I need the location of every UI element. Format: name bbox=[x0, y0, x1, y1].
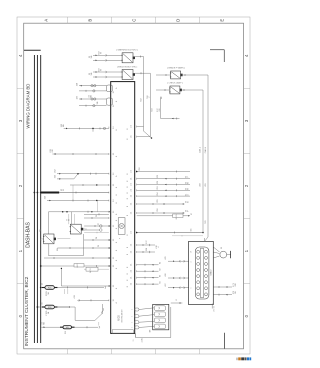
BB bottom labels bbox=[141, 338, 144, 343]
OBD right side wire 1 bbox=[213, 286, 232, 288]
BB block outer bbox=[153, 304, 169, 329]
labels rows 3-4 bbox=[77, 95, 79, 99]
OBD feed wire 1 bbox=[168, 260, 189, 262]
drop x97 bbox=[96, 201, 98, 212]
ground wire bbox=[227, 254, 231, 256]
light wire y235.8 bbox=[172, 235, 203, 237]
BB top arrow connector bbox=[171, 299, 183, 304]
W5 labels bbox=[42, 322, 46, 325]
wire y185 bbox=[70, 184, 109, 186]
border inner frame bbox=[24, 23, 244, 349]
connector bubble pair lamp B bbox=[84, 225, 102, 232]
ECU box label MID2 bbox=[118, 309, 124, 323]
bus terminator bar bbox=[24, 49, 41, 51]
OBD right labels bbox=[233, 282, 237, 286]
wire y214 bbox=[84, 213, 109, 215]
lamp B label bbox=[84, 227, 88, 230]
power bus line 3 bbox=[40, 55, 42, 343]
lamp A body bbox=[43, 234, 56, 244]
oval component W5 bbox=[60, 326, 75, 330]
rows labels bbox=[157, 198, 159, 202]
label above strong wire bbox=[191, 229, 193, 232]
fuse F1 label bbox=[46, 291, 50, 296]
fuse F1 body bbox=[42, 286, 58, 290]
fuse F2 connector bumps bbox=[102, 308, 104, 313]
left edge entry arrows bbox=[109, 211, 110, 287]
boxed label 2 bbox=[84, 267, 109, 272]
cluster labels bbox=[146, 239, 148, 243]
ECU internal gauge symbol bbox=[118, 218, 125, 239]
ECU bottom-right rounded pin stubs bbox=[132, 308, 139, 329]
BB right side rail bbox=[136, 307, 171, 338]
fuse F2 second branch bbox=[54, 306, 69, 308]
ECU right edge pin numbers bbox=[131, 125, 133, 286]
riser top labels bbox=[147, 94, 151, 98]
lamp A link wire bbox=[49, 239, 71, 256]
wire W202 to housing H1 bbox=[79, 90, 107, 92]
wire ECU to riser x204 bbox=[136, 232, 203, 234]
wire y154 label bbox=[50, 149, 54, 153]
wire to ECU y154 bbox=[52, 153, 109, 155]
wire riser B bbox=[137, 73, 151, 136]
extra junction dots left mesh bbox=[91, 184, 97, 212]
power bus line 2 bbox=[36, 55, 38, 343]
lamp C wire labels bbox=[89, 55, 93, 58]
OBD shell center bar bbox=[201, 248, 204, 298]
splice circle bbox=[220, 251, 227, 258]
border outer frame bbox=[17, 17, 250, 354]
power bus line 1 bbox=[33, 55, 35, 343]
wire rows y197-213 bbox=[137, 203, 185, 214]
lamp E wires bbox=[156, 74, 208, 76]
wire pair merge y174/179 bbox=[57, 173, 109, 180]
quartet wires to arrows bbox=[137, 264, 159, 285]
quartet labels bbox=[160, 261, 162, 264]
lamp D right wire to riser bbox=[135, 72, 150, 74]
BB block wires from ECU bbox=[139, 308, 154, 328]
riser labels bbox=[199, 146, 202, 153]
L wire into box bottom bbox=[61, 268, 109, 286]
more scatter labels bbox=[205, 219, 207, 223]
OBD bottom stub bbox=[212, 304, 215, 312]
ECU bottom stub pin bbox=[133, 333, 136, 341]
wire to ECU y128 bbox=[64, 127, 109, 131]
lamp D left wires bbox=[93, 71, 122, 78]
ground bar bbox=[230, 251, 232, 258]
fuse F2 label bbox=[46, 311, 50, 316]
ECU inner bottom rect bbox=[112, 330, 133, 334]
drop into lamp B bbox=[69, 212, 75, 224]
cluster mesh wire y240 bbox=[84, 239, 109, 241]
ECU right edge pin ticks bbox=[136, 126, 138, 285]
wire y128 label bbox=[61, 123, 65, 127]
fuse F1 wire bbox=[40, 287, 106, 289]
wire field labels bbox=[139, 166, 141, 170]
boxed label wire y215.8 bbox=[137, 214, 190, 220]
wire riser C with connector bbox=[161, 97, 180, 120]
OBD top edge pins bbox=[204, 238, 206, 241]
top right bracket bbox=[210, 50, 224, 62]
long wire riser x204 bbox=[205, 75, 209, 241]
riser C label bbox=[157, 107, 161, 111]
OBD feed wire 3 bbox=[168, 287, 189, 289]
extra pin number columns inside ECU right bbox=[127, 128, 129, 288]
BB block cells bbox=[154, 306, 165, 329]
labels rows 1-2 bbox=[77, 82, 79, 86]
extra cluster labels bbox=[57, 247, 59, 251]
cluster mesh wire y218 bbox=[84, 217, 109, 219]
fuse F2 body bbox=[42, 305, 58, 309]
wire y300 label bbox=[74, 295, 76, 299]
lamp A label bbox=[41, 237, 45, 240]
cluster top wire y211.8 bbox=[49, 211, 109, 213]
lamp D body bbox=[122, 70, 135, 80]
lamp F wires bbox=[156, 89, 203, 91]
zone column ticks top bbox=[17, 17, 250, 354]
wire W203 to housing H2 bbox=[79, 98, 107, 100]
splice label bbox=[221, 246, 223, 249]
lamp B body bbox=[70, 224, 83, 234]
OBD feed wire 2 bbox=[168, 277, 189, 279]
cluster mesh labels bbox=[96, 214, 98, 217]
feed bar label bbox=[61, 188, 65, 191]
ECU box MID2 instrument cluster bbox=[111, 82, 135, 334]
connector cluster y245-252 bbox=[137, 244, 155, 253]
thick feed bar y192.5 bbox=[34, 192, 109, 194]
wire W201 to housing H1 bbox=[79, 85, 107, 87]
lamp D wire labels bbox=[89, 72, 93, 75]
OBD feed labels bbox=[165, 255, 167, 259]
small drop pair bbox=[65, 289, 68, 294]
ECU left edge pin ticks bbox=[108, 127, 110, 302]
zone numbers 4-0 left edge bbox=[18, 54, 23, 317]
cluster mesh wire y248 bbox=[57, 247, 109, 249]
BB block label bbox=[150, 329, 152, 332]
ECU left edge pin numbers bbox=[113, 90, 115, 301]
lamp E body bbox=[170, 71, 183, 79]
OBD pin squares column 1 bbox=[197, 251, 200, 296]
OBD connector outer box bbox=[189, 241, 214, 304]
OBD inner pin numbers bbox=[191, 251, 193, 289]
fuse bus-side labels bbox=[42, 282, 44, 285]
lamp F body bbox=[169, 86, 182, 94]
lamp C left wires bbox=[93, 54, 122, 61]
wire y266 with boxed label bbox=[40, 263, 109, 267]
wire field right of ECU bbox=[136, 171, 190, 198]
lamp C body bbox=[122, 53, 135, 63]
wire y258 bbox=[44, 257, 109, 259]
loop wire around lamps bbox=[49, 212, 84, 256]
riser mid labels bbox=[141, 97, 143, 101]
splice wires from OBD bbox=[213, 247, 219, 258]
wire riser A stub into ECU bbox=[137, 126, 144, 128]
extra pin number columns inside ECU left bbox=[115, 87, 118, 304]
zone letters A-E top edge bbox=[43, 19, 224, 22]
wire W204 to housing H2 bbox=[79, 105, 107, 107]
ECU pin housing H1 bbox=[107, 85, 113, 92]
wire W5 bottom bbox=[41, 322, 99, 328]
cluster mesh wire y232 bbox=[84, 232, 109, 234]
cluster mesh wire y226 bbox=[84, 225, 109, 227]
wire y300 bbox=[77, 299, 109, 301]
OBD right side wire 2 bbox=[213, 294, 232, 296]
zone numbers 4-0 right edge bbox=[244, 54, 249, 317]
long wire riser x209 bbox=[202, 90, 204, 233]
ECU pin housing H2 bbox=[107, 98, 113, 105]
wire riser A bbox=[144, 57, 153, 139]
lamp C right wire to riser bbox=[135, 56, 143, 58]
boxed label wire end label bbox=[191, 212, 193, 215]
wire y200 label bbox=[45, 195, 47, 199]
OBD pin squares column 2 bbox=[205, 251, 208, 296]
fuse F2 wire bbox=[37, 304, 103, 320]
merge labels bbox=[55, 168, 57, 172]
row end labels bbox=[186, 175, 190, 178]
wire y200 with drop bbox=[47, 185, 109, 202]
bottom right tick line bbox=[224, 333, 226, 349]
OBD D-shell bbox=[195, 247, 209, 299]
